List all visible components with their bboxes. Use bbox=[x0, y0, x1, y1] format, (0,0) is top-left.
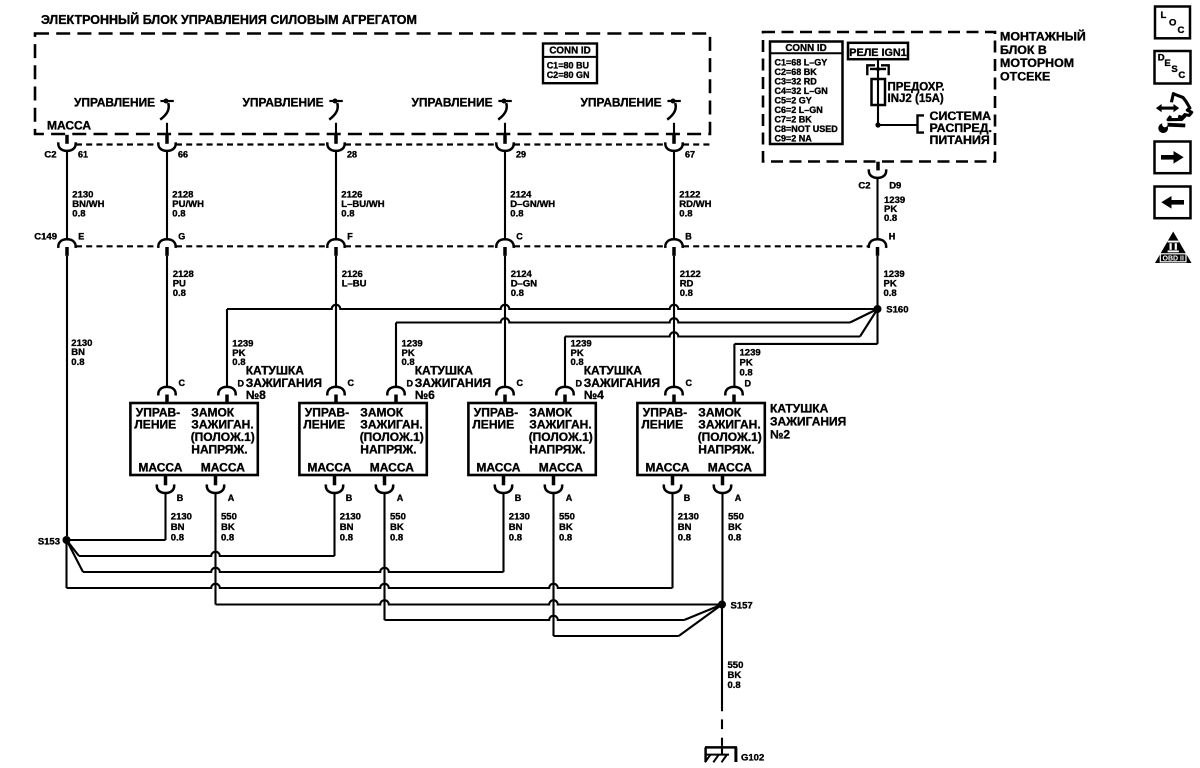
wire 1239 PK drop to coil2 D bbox=[733, 344, 735, 388]
connector row C149 dotted line bbox=[76, 245, 158, 247]
connector C149 pin E male tick bbox=[65, 247, 69, 256]
svg-text:S153: S153 bbox=[38, 537, 60, 548]
wire S157 diagonal 1 bbox=[684, 605, 722, 621]
svg-text:C: C bbox=[517, 378, 524, 388]
coil №8 pin C tick bbox=[165, 395, 169, 403]
svg-text:B: B bbox=[515, 493, 522, 503]
connector C149 pin B male tick bbox=[672, 247, 676, 256]
wire 1239 PK branch to coil2 D bbox=[734, 343, 877, 345]
svg-text:МАССА: МАССА bbox=[47, 119, 91, 133]
wire 550 BK coil №4 down bbox=[552, 493, 554, 636]
svg-text:E: E bbox=[78, 232, 84, 242]
wire 2128 PU to coil bbox=[166, 256, 168, 388]
wire S153 diagonal 1 bbox=[67, 540, 80, 556]
wire S153 to coil6 B bbox=[79, 552, 335, 556]
connector C2 pin 29 female cup bbox=[496, 142, 513, 151]
splice S160 bbox=[874, 305, 882, 313]
connector C2 pin 66 female cup bbox=[158, 142, 175, 151]
connector C149 pin B female dome bbox=[665, 239, 682, 248]
svg-text:УПРАВЛЕНИЕ: УПРАВЛЕНИЕ bbox=[243, 95, 324, 109]
wire 550 BK coil №8 down bbox=[214, 493, 216, 605]
wire relay to fuse to D9 bbox=[877, 59, 879, 125]
connector C2 pin 66 male tick bbox=[165, 135, 169, 144]
wire S153 to coil4 B bbox=[83, 568, 504, 572]
svg-text:G102: G102 bbox=[741, 753, 764, 764]
svg-text:УПРАВЛЕНИЕ: УПРАВЛЕНИЕ bbox=[581, 95, 662, 109]
ignition coil №2 box bbox=[637, 403, 764, 475]
svg-text:29: 29 bbox=[516, 150, 526, 160]
wire 2130 BN to splice S153 bbox=[66, 256, 68, 536]
coil №2 pin D tick bbox=[732, 395, 736, 403]
connector C2 pin 29 male tick bbox=[503, 135, 507, 144]
wire coil6 A to S157 bbox=[385, 616, 685, 620]
svg-text:D: D bbox=[745, 378, 752, 388]
splice S153 bbox=[63, 536, 71, 544]
connector C149 pin H female dome bbox=[869, 239, 886, 248]
wire 2122 RD/WH bbox=[673, 151, 675, 240]
wire coil8 A to S157 bbox=[216, 600, 723, 604]
wire 1239 PK branch to coil6 D bbox=[396, 318, 850, 322]
connector C2 pin 67 female cup bbox=[665, 142, 682, 151]
svg-text:СИСТЕМАРАСПРЕД.ПИТАНИЯ: СИСТЕМАРАСПРЕД.ПИТАНИЯ bbox=[930, 109, 992, 147]
connector C149 pin H male tick bbox=[876, 247, 880, 256]
svg-text:C2: C2 bbox=[858, 181, 870, 192]
svg-text:CONN ID: CONN ID bbox=[785, 43, 826, 54]
svg-text:C: C bbox=[348, 378, 355, 388]
wire 550 BK to ground bbox=[721, 605, 723, 712]
connector D9 male tick bbox=[876, 162, 880, 171]
svg-text:OBD II: OBD II bbox=[1163, 255, 1184, 262]
connector C149 pin F male tick bbox=[334, 247, 338, 256]
svg-text:28: 28 bbox=[347, 150, 357, 160]
fuse terminal clips bbox=[867, 65, 888, 75]
svg-text:S157: S157 bbox=[731, 601, 753, 612]
coil №6 pin C dome bbox=[327, 387, 344, 396]
coil №2 pin C tick bbox=[672, 395, 676, 403]
fuse INJ2 15A bbox=[872, 79, 886, 105]
svg-text:B: B bbox=[684, 493, 691, 503]
wire 1239 PK drop to coil4 D bbox=[564, 337, 566, 388]
wire 2130 BN coil №6 down bbox=[333, 493, 335, 556]
connector C2 pin 61 female cup bbox=[58, 142, 75, 151]
coil №6 pin A tick bbox=[383, 476, 387, 485]
wire dash segment 2 bbox=[721, 738, 723, 746]
svg-text:B: B bbox=[346, 493, 353, 503]
coil №2 pin D dome bbox=[725, 387, 742, 396]
connector C2 pin 28 male tick bbox=[334, 135, 338, 144]
icon DESC bbox=[1155, 51, 1191, 84]
wire 1239 PK drop to coil6 D bbox=[395, 323, 397, 388]
svg-text:УПРАВЛЕНИЕ: УПРАВЛЕНИЕ bbox=[74, 95, 155, 109]
driver switch symbol 3 bbox=[498, 99, 512, 120]
wire 2128 PU/WH bbox=[166, 151, 168, 240]
wire dash segment 1 bbox=[721, 719, 723, 729]
wire 2124 D–GN/WH bbox=[504, 151, 506, 240]
wire 2130 BN coil №8 down bbox=[164, 493, 166, 540]
svg-text:67: 67 bbox=[685, 150, 695, 160]
ignition coil №4 box bbox=[468, 403, 595, 475]
connector C2 pin 67 male tick bbox=[672, 135, 676, 144]
wire S153 diagonal 2 bbox=[67, 540, 84, 572]
wire coil4 A to S157 bbox=[554, 635, 679, 637]
wire driver 1 to pin bbox=[166, 123, 168, 135]
wire 2124 D–GN to coil bbox=[504, 256, 506, 388]
svg-text:C2=80 GN: C2=80 GN bbox=[547, 70, 590, 80]
coil №8 pin B tick bbox=[164, 476, 168, 485]
driver switch symbol 4 bbox=[667, 99, 681, 120]
icon arrow right bbox=[1155, 142, 1191, 174]
coil №2 pin C dome bbox=[665, 387, 682, 396]
wire driver 2 to pin bbox=[335, 123, 337, 135]
svg-text:A: A bbox=[735, 493, 742, 503]
coil №2 pin A cup bbox=[714, 484, 731, 493]
wire 2130 BN coil №2 down bbox=[671, 493, 673, 588]
svg-text:F: F bbox=[347, 232, 353, 242]
coil №2 pin B tick bbox=[671, 476, 675, 485]
coil №4 pin D tick bbox=[563, 395, 567, 403]
wire 2130 BN/WH bbox=[66, 151, 68, 240]
coil №8 pin B cup bbox=[157, 484, 174, 493]
svg-text:УПРАВЛЕНИЕ: УПРАВЛЕНИЕ bbox=[412, 95, 493, 109]
icon service/diagnostic bbox=[1156, 94, 1192, 133]
wire to power distribution system bbox=[878, 124, 918, 126]
svg-text:B: B bbox=[177, 493, 184, 503]
connector C149 pin C female dome bbox=[496, 239, 513, 248]
svg-text:S160: S160 bbox=[886, 305, 908, 316]
coil №4 pin B cup bbox=[495, 484, 512, 493]
coil №6 pin D tick bbox=[394, 395, 398, 403]
svg-text:CONN ID: CONN ID bbox=[549, 46, 590, 57]
wire 550 BK coil №2 down bbox=[721, 493, 723, 605]
wire 2126 L–BU to coil bbox=[335, 256, 337, 388]
connector C149 pin E female dome bbox=[58, 239, 75, 248]
connector C2 pin 61 male tick bbox=[65, 135, 69, 144]
wire driver 3 to pin bbox=[504, 123, 506, 135]
wire 1239 PK splice to coil8 D bbox=[227, 305, 878, 309]
wire 2122 RD to coil bbox=[673, 256, 675, 388]
svg-text:66: 66 bbox=[178, 150, 188, 160]
coil №8 pin A cup bbox=[207, 484, 224, 493]
wire 1239 PK diagonal to coil6 branch bbox=[850, 309, 878, 323]
wire 550 BK coil №6 down bbox=[383, 493, 385, 620]
coil №4 pin C tick bbox=[503, 395, 507, 403]
svg-text:G: G bbox=[178, 232, 185, 242]
svg-text:A: A bbox=[228, 493, 235, 503]
svg-text:C: C bbox=[516, 232, 523, 242]
svg-text:C149: C149 bbox=[34, 232, 57, 243]
svg-text:ЭЛЕКТРОННЫЙ БЛОК УПРАВЛЕНИЯ СИ: ЭЛЕКТРОННЫЙ БЛОК УПРАВЛЕНИЯ СИЛОВЫМ АГРЕ… bbox=[41, 12, 417, 27]
driver switch symbol 1 bbox=[160, 99, 174, 120]
svg-text:ПРЕДОХР.INJ2 (15A): ПРЕДОХР.INJ2 (15A) bbox=[888, 81, 945, 105]
relay IGN1 box bbox=[848, 43, 908, 59]
junction to power distribution bbox=[875, 122, 880, 127]
bracket СИСТЕМА РАСПРЕД. ПИТАНИЯ bbox=[918, 115, 925, 132]
wire S153 down bbox=[65, 540, 67, 588]
fuse block dashed box bbox=[763, 32, 995, 162]
coil №4 pin B tick bbox=[502, 476, 506, 485]
coil №4 pin A cup bbox=[545, 484, 562, 493]
connector C149 pin G male tick bbox=[165, 247, 169, 256]
driver switch symbol 2 bbox=[329, 99, 343, 120]
fuse block CONN ID table bbox=[770, 42, 843, 145]
svg-text:A: A bbox=[566, 493, 573, 503]
ignition coil №8 box bbox=[130, 403, 257, 475]
svg-text:H: H bbox=[889, 232, 896, 242]
connector C2 pin 28 female cup bbox=[327, 142, 344, 151]
svg-text:D: D bbox=[407, 378, 414, 388]
wire S153 to coil8 B bbox=[67, 539, 166, 541]
wire 1239 PK drop to coil8 D bbox=[226, 309, 228, 388]
connector C149 pin C male tick bbox=[503, 247, 507, 256]
connector C149 pin F female dome bbox=[327, 239, 344, 248]
wire 2126 L–BU/WH bbox=[335, 151, 337, 240]
svg-text:B: B bbox=[685, 232, 692, 242]
icon arrow left bbox=[1155, 187, 1191, 219]
coil №6 pin B tick bbox=[333, 476, 337, 485]
coil №4 pin A tick bbox=[552, 476, 556, 485]
svg-text:C: C bbox=[686, 378, 693, 388]
coil №4 pin D dome bbox=[556, 387, 573, 396]
icon OBD II triangle bbox=[1155, 232, 1192, 264]
svg-text:РЕЛЕ IGN1: РЕЛЕ IGN1 bbox=[849, 47, 906, 59]
icon LOC bbox=[1155, 7, 1190, 39]
connector row C2 dotted line bbox=[76, 143, 158, 145]
coil №2 pin A tick bbox=[721, 476, 725, 485]
ignition coil №6 box bbox=[299, 403, 426, 475]
wire 1239 PK branch to coil4 D bbox=[565, 332, 860, 336]
coil №6 pin C tick bbox=[334, 395, 338, 403]
coil №8 pin D dome bbox=[218, 387, 235, 396]
PCM CONN ID table bbox=[543, 44, 597, 84]
wire S153 to coil2 B bbox=[67, 584, 673, 588]
svg-text:61: 61 bbox=[78, 150, 88, 160]
svg-text:C2: C2 bbox=[44, 150, 56, 161]
connector D9 female cup bbox=[869, 169, 886, 178]
coil №8 pin A tick bbox=[214, 476, 218, 485]
PCM dashed box U1 bbox=[35, 34, 710, 135]
wire 1239 PK below S160 bbox=[876, 309, 878, 344]
coil №6 pin D dome bbox=[387, 387, 404, 396]
svg-text:D9: D9 bbox=[889, 181, 901, 192]
coil №6 pin B cup bbox=[326, 484, 343, 493]
coil №8 pin D tick bbox=[225, 395, 229, 403]
connector C149 pin G female dome bbox=[158, 239, 175, 248]
svg-text:D: D bbox=[576, 378, 583, 388]
svg-text:D: D bbox=[238, 378, 245, 388]
svg-text:C: C bbox=[179, 378, 186, 388]
ground G102 bbox=[705, 745, 737, 762]
wire 2130 BN coil №4 down bbox=[502, 493, 504, 572]
wire 1239 PK from C149 H to splice S160 bbox=[876, 256, 878, 306]
coil №2 pin B cup bbox=[664, 484, 681, 493]
wire 1239 PK diagonal to coil4 branch bbox=[860, 309, 878, 337]
svg-text:A: A bbox=[397, 493, 404, 503]
wire driver 4 to pin bbox=[673, 123, 675, 135]
coil №4 pin C dome bbox=[496, 387, 513, 396]
wire S157 diagonal 2 bbox=[679, 605, 722, 637]
wire 1239 PK from D9 bbox=[876, 178, 878, 240]
splice S157 bbox=[718, 601, 726, 609]
coil №8 pin C dome bbox=[158, 387, 175, 396]
coil №6 pin A cup bbox=[376, 484, 393, 493]
